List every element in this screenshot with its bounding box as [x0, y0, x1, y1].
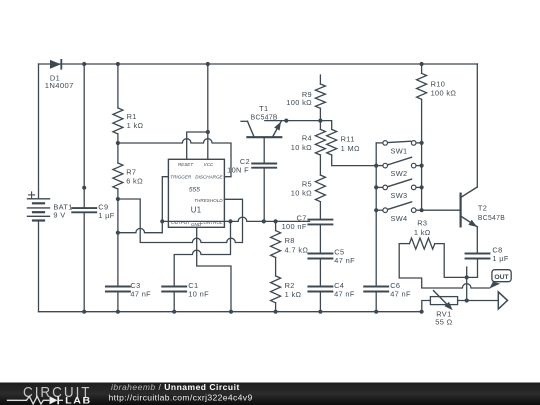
junction rail R2: [274, 310, 278, 314]
svg-text:TRIGGER: TRIGGER: [170, 175, 192, 180]
resistor R3 1k: [409, 238, 434, 249]
svg-text:47 nF: 47 nF: [130, 290, 151, 299]
svg-text:100 nF: 100 nF: [282, 222, 307, 231]
junction left bus SW3: [374, 185, 378, 189]
wire R3 left down to OUT flag: [399, 244, 489, 288]
wire C9 column top: [83, 64, 85, 208]
wire C7 to C5: [319, 224, 321, 253]
svg-text:1N4007: 1N4007: [45, 81, 74, 90]
resistor R10 100k: [417, 73, 427, 99]
transistor T1 BC547B: [247, 136, 281, 138]
wire C1 to ground rail: [173, 292, 175, 312]
junction rail C4: [318, 310, 322, 314]
speaker output triangle: [498, 292, 507, 309]
battery BAT1: [28, 198, 50, 200]
junction C9 top node: [82, 186, 86, 190]
svg-text:47 nF: 47 nF: [334, 256, 355, 265]
svg-text:LAB: LAB: [65, 395, 92, 405]
resistor R1 1k: [113, 108, 123, 134]
junction control node: [228, 219, 232, 223]
svg-text:R2: R2: [285, 281, 295, 290]
wire R1-R7 segment: [117, 134, 119, 163]
wire T2 emitter to C8: [476, 227, 478, 254]
capacitor C4 47nF: [308, 286, 332, 288]
svg-text:10 kΩ: 10 kΩ: [291, 188, 312, 197]
junction R1 bottom: [116, 141, 120, 145]
svg-text:R10: R10: [431, 79, 446, 88]
resistor R4 10k: [315, 129, 325, 155]
svg-text:VCC: VCC: [204, 162, 214, 167]
wire R7 bottom to C3 column: [117, 189, 119, 287]
svg-text:U1: U1: [191, 205, 202, 214]
junction rail gnd wire: [229, 310, 233, 314]
svg-text:T2: T2: [478, 204, 487, 213]
wire left rail (battery top): [38, 64, 40, 199]
wire U1 gnd pin down to ground rail: [197, 227, 231, 311]
svg-text:1 kΩ: 1 kΩ: [414, 228, 431, 237]
junction right bus SW2: [420, 164, 424, 168]
svg-text:RESET: RESET: [178, 162, 195, 167]
wire U1 threshold loop to R7 bottom: [118, 199, 243, 243]
wire trigger node to R7 column: [118, 228, 162, 232]
svg-text:OUTPUT: OUTPUT: [171, 220, 191, 225]
wire top supply rail: [39, 63, 478, 65]
potentiometer RV1 55 ohm: [430, 297, 457, 305]
svg-text:R7: R7: [126, 167, 136, 176]
capacitor C3 47nF: [106, 286, 130, 288]
wire C5 to C4: [319, 259, 321, 287]
wire RV1 left lead to ground rail: [422, 301, 431, 312]
wire R8 to R2: [275, 258, 277, 276]
svg-text:10N F: 10N F: [227, 166, 249, 175]
wire U1 reset/vcc pins to supply: [187, 132, 208, 159]
IC U1 555 timer box: [168, 159, 224, 227]
svg-text:100 kΩ: 100 kΩ: [286, 98, 312, 107]
wire main node through U1 (output/control row): [162, 217, 309, 221]
capacitor C2 10nF: [252, 163, 276, 165]
wire RV1 right to speaker: [458, 300, 499, 302]
svg-text:http://circuitlab.com/cxrj322e: http://circuitlab.com/cxrj322e4c4v9: [109, 392, 253, 402]
wire T2 collector to supply rail: [476, 64, 478, 187]
switch SW2: [376, 165, 383, 167]
wire switch right bus to T2 base: [422, 99, 461, 210]
junction top rail / C9: [82, 62, 86, 66]
resistor R5 10k: [315, 175, 325, 202]
wire R10 top stub: [421, 64, 423, 73]
wire left rail (battery bottom to ground rail): [38, 221, 40, 312]
resistor R11 1M: [327, 129, 337, 155]
svg-text:1 MΩ: 1 MΩ: [341, 144, 360, 153]
wire C3 to ground rail: [117, 292, 119, 312]
junction output row: [465, 298, 469, 302]
capacitor C7 100nF: [308, 219, 332, 221]
capacitor C5 47nF: [308, 253, 332, 255]
svg-text:OUT: OUT: [494, 274, 509, 281]
resistor R8 4.7k: [271, 231, 281, 258]
wire R11 bottom to switch bus: [332, 155, 377, 166]
junction right bus SW4: [420, 208, 424, 212]
wire C9 column bottom: [83, 212, 85, 311]
wire R3 right lead to C8 bottom: [435, 244, 478, 278]
junction R8 top: [274, 219, 278, 223]
svg-text:SW2: SW2: [390, 169, 407, 178]
svg-text:47 nF: 47 nF: [390, 290, 411, 299]
svg-text:6 kΩ: 6 kΩ: [126, 176, 143, 185]
junction right bus SW3: [420, 185, 424, 189]
svg-text:BC547B: BC547B: [478, 213, 505, 222]
junction rail C1: [172, 310, 176, 314]
wire R1 bottom to U1 discharge: [118, 139, 231, 177]
junction rail RV1: [420, 310, 424, 314]
junction C8 node: [465, 275, 469, 279]
junction rail C3: [116, 310, 120, 314]
junction rail C9: [82, 310, 86, 314]
wire R11 branch top: [320, 121, 331, 130]
wire C8 node down to output row: [466, 267, 468, 301]
svg-text:R4: R4: [302, 134, 312, 143]
wire R3 left lead: [399, 243, 409, 245]
junction rail C6: [374, 310, 378, 314]
wire R2 to ground rail: [275, 303, 277, 312]
transistor T2 BC547B: [460, 194, 462, 227]
svg-text:SW3: SW3: [390, 191, 407, 200]
junction left bus SW4: [374, 208, 378, 212]
svg-text:R5: R5: [302, 179, 312, 188]
junction reset-vcc link: [206, 130, 210, 134]
junction emitter / R9 column: [318, 119, 322, 123]
junction R7 column / trigger wire: [116, 231, 120, 235]
svg-text:R11: R11: [341, 135, 355, 144]
junction left bus SW2: [374, 164, 378, 168]
capacitor C9 1uF: [72, 207, 96, 209]
wire R5 bottom to C7: [319, 202, 321, 220]
wire C6 to ground rail: [375, 292, 377, 312]
diode D1 1N4007: [50, 60, 61, 69]
junction trigger / output node: [160, 219, 164, 223]
junction T1 emitter wire: [284, 119, 288, 123]
svg-text:R3: R3: [417, 219, 427, 228]
footer CircuitLab attribution bar: [0, 383, 540, 405]
wire T1 base down to C2: [263, 137, 265, 163]
wire control node down to C1: [174, 221, 230, 286]
svg-text:CONTROL: CONTROL: [200, 220, 223, 225]
wire R9 top stub: [319, 75, 321, 84]
junction top rail / R1: [116, 62, 120, 66]
svg-text:4.7 kΩ: 4.7 kΩ: [285, 245, 309, 254]
wire R4-R5 segment: [319, 155, 321, 175]
svg-text:10 nF: 10 nF: [188, 290, 209, 299]
wire switch left bus: [375, 143, 377, 287]
wire C2 bottom to main node: [263, 168, 265, 222]
svg-text:1 kΩ: 1 kΩ: [127, 121, 144, 130]
node OUT flag: [492, 270, 511, 282]
svg-text:1 kΩ: 1 kΩ: [285, 290, 302, 299]
junction C2 bottom: [262, 219, 266, 223]
svg-text:R8: R8: [285, 236, 295, 245]
svg-text:55 Ω: 55 Ω: [435, 318, 452, 327]
svg-text:10 kΩ: 10 kΩ: [291, 143, 312, 152]
svg-text:9 V: 9 V: [53, 210, 65, 219]
wire T1 emitter to R9 column: [265, 120, 321, 122]
svg-text:THRESHOLD: THRESHOLD: [194, 198, 223, 203]
capacitor C8 1uF: [466, 253, 490, 255]
capacitor C6 47nF: [364, 286, 388, 288]
svg-text:C8: C8: [492, 245, 502, 254]
wire R9 bottom to R4 top: [319, 108, 321, 129]
svg-text:555: 555: [189, 186, 200, 193]
wire U1 trigger pin down to output node: [162, 177, 168, 233]
wire R8 top stub: [275, 221, 277, 230]
resistor R9 100k: [315, 84, 325, 108]
svg-text:SW1: SW1: [390, 147, 407, 156]
capacitor C1 10nF: [162, 286, 186, 288]
svg-text:ibraheemb / Unnamed Circuit: ibraheemb / Unnamed Circuit: [111, 382, 240, 392]
junction top rail / R10: [420, 62, 424, 66]
svg-text:1 µF: 1 µF: [98, 211, 114, 220]
switch SW1: [376, 142, 383, 144]
svg-text:1 µF: 1 µF: [492, 254, 508, 263]
wire R1 column top: [117, 64, 119, 108]
wire bottom ground rail: [39, 311, 422, 313]
svg-text:DISCHARGE: DISCHARGE: [195, 175, 223, 180]
svg-text:C7: C7: [297, 213, 307, 222]
svg-text:SW4: SW4: [390, 214, 407, 223]
junction R7 bottom: [116, 197, 120, 201]
junction right bus SW1: [420, 141, 424, 145]
svg-text:R1: R1: [127, 112, 137, 121]
resistor R7 6k: [113, 163, 123, 189]
svg-text:47 nF: 47 nF: [334, 290, 355, 299]
switch SW4: [376, 209, 383, 211]
resistor R2 1k: [271, 276, 281, 303]
switch SW3: [376, 186, 383, 188]
wire C4 to ground rail: [319, 292, 321, 312]
junction top rail / U1 vcc: [206, 62, 210, 66]
svg-text:100 kΩ: 100 kΩ: [431, 89, 457, 98]
